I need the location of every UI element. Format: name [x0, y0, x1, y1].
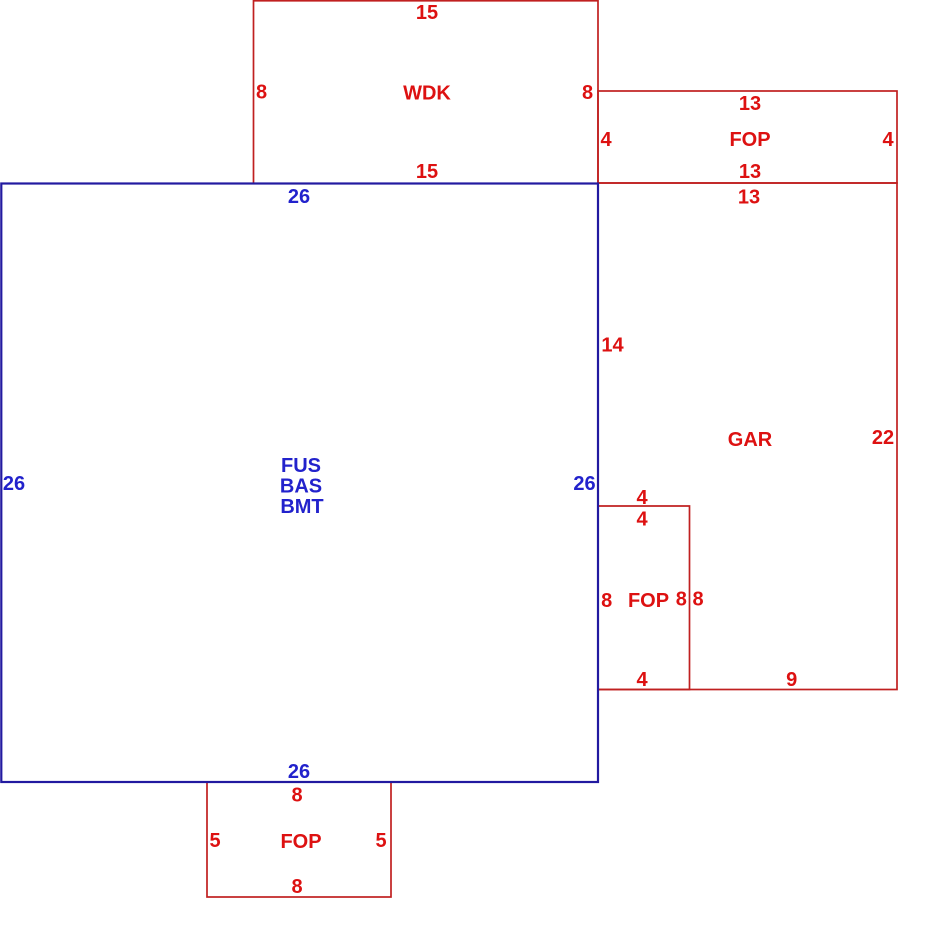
svg-text:26: 26	[573, 473, 595, 495]
svg-text:5: 5	[209, 830, 220, 852]
svg-text:26: 26	[3, 473, 25, 495]
svg-text:4: 4	[600, 129, 612, 151]
svg-text:8: 8	[291, 876, 302, 898]
svg-text:13: 13	[738, 187, 760, 209]
svg-text:22: 22	[872, 427, 894, 449]
svg-text:FUS: FUS	[281, 455, 321, 477]
svg-text:BMT: BMT	[280, 496, 323, 518]
svg-text:26: 26	[288, 761, 310, 783]
svg-text:13: 13	[739, 161, 761, 183]
svg-text:GAR: GAR	[728, 429, 773, 451]
svg-text:4: 4	[636, 509, 648, 531]
svg-text:15: 15	[416, 2, 438, 24]
svg-text:4: 4	[882, 129, 894, 151]
svg-text:FOP: FOP	[729, 129, 770, 151]
svg-text:9: 9	[786, 669, 797, 691]
svg-text:15: 15	[416, 161, 438, 183]
svg-text:26: 26	[288, 186, 310, 208]
svg-text:WDK: WDK	[403, 83, 451, 105]
svg-text:4: 4	[636, 669, 648, 691]
svg-text:5: 5	[375, 830, 386, 852]
svg-text:14: 14	[601, 335, 624, 357]
svg-text:FOP: FOP	[628, 590, 669, 612]
svg-text:8: 8	[291, 785, 302, 807]
svg-text:8: 8	[256, 82, 267, 104]
svg-text:4: 4	[636, 487, 648, 509]
svg-text:8: 8	[676, 589, 687, 611]
svg-text:BAS: BAS	[280, 476, 322, 498]
svg-text:8: 8	[582, 82, 593, 104]
svg-text:13: 13	[739, 93, 761, 115]
svg-text:8: 8	[601, 590, 612, 612]
svg-text:8: 8	[692, 589, 703, 611]
svg-text:FOP: FOP	[280, 831, 321, 853]
